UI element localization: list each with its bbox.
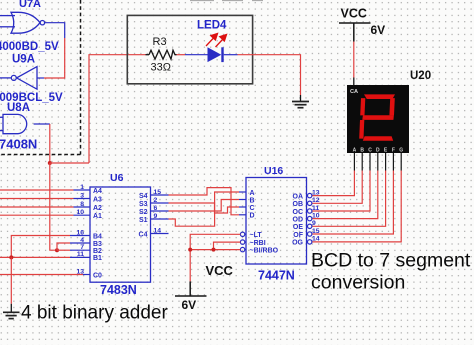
wire to B3 pin [57, 243, 70, 250]
LED LED4 [208, 47, 224, 62]
svg-text:conversion: conversion [311, 272, 405, 294]
svg-text:9: 9 [312, 220, 316, 227]
screen-edge artifact top [190, 0, 263, 1]
svg-text:B: B [360, 148, 364, 154]
svg-text:C: C [250, 205, 255, 212]
svg-text:A4: A4 [93, 188, 102, 195]
segment g (middle) [362, 115, 394, 120]
wire input B1 [0, 256, 70, 258]
svg-text:S4: S4 [139, 193, 148, 200]
svg-text:B3: B3 [93, 241, 102, 248]
segment d (bottom) [363, 136, 393, 141]
IC U6 7483N body [90, 187, 151, 282]
svg-text:OB: OB [293, 201, 304, 208]
wire input A4 [0, 189, 74, 191]
U6 left pin names [93, 188, 102, 279]
U16 input bubbles LT RBI BI [240, 232, 246, 252]
svg-text:U6: U6 [110, 172, 124, 184]
svg-text:U7A: U7A [19, 0, 41, 10]
svg-text:7447N: 7447N [258, 269, 295, 283]
svg-text:~LT: ~LT [250, 232, 263, 239]
svg-text:OF: OF [293, 232, 303, 239]
seven segment display U20 [347, 85, 409, 153]
svg-text:BCD to 7 segment: BCD to 7 segment [311, 250, 471, 272]
svg-text:C: C [368, 148, 372, 154]
segment e (lower-left) [359, 120, 364, 139]
svg-text:D: D [250, 213, 255, 220]
resistor R3 [146, 50, 177, 59]
gate U7A (NOR) [0, 12, 45, 33]
svg-text:OD: OD [293, 216, 304, 223]
svg-text:OE: OE [293, 224, 303, 231]
wire S1 to A [169, 192, 240, 226]
wires display to U16 outputs [312, 171, 401, 242]
wire junction to ground [10, 257, 12, 303]
svg-text:U9A: U9A [12, 54, 35, 66]
U16 output bubbles [307, 193, 312, 244]
U6 left pin numbers [76, 184, 84, 275]
svg-text:A: A [250, 190, 255, 197]
svg-text:A: A [353, 148, 357, 154]
wire S4 to D [169, 188, 240, 215]
svg-text:10: 10 [312, 212, 320, 219]
svg-text:U8A: U8A [7, 102, 30, 114]
node junction VCC-1 [188, 248, 192, 252]
svg-text:D: D [376, 148, 380, 154]
VCC symbol (top) [339, 23, 371, 42]
wire to B2 pin [57, 249, 70, 251]
svg-text:15: 15 [312, 228, 320, 235]
node junction at 57,250 [55, 248, 59, 252]
svg-text:G: G [399, 148, 403, 154]
wire input B4 [11, 236, 70, 258]
display pin letters A-G [353, 148, 404, 154]
svg-text:A1: A1 [93, 213, 102, 220]
wire input A2 [0, 206, 74, 208]
svg-text:LED4: LED4 [197, 20, 227, 32]
svg-text:U20: U20 [410, 70, 431, 82]
svg-text:12: 12 [312, 197, 320, 204]
IC U16 7447N body [246, 178, 307, 265]
wire up to R3 [89, 55, 146, 163]
wires U6 sums to U16 inputs (weave) [169, 188, 240, 227]
wire input C0 [0, 274, 83, 276]
wire VCC to display CA pin [353, 42, 355, 78]
wire R3 to LED [177, 54, 186, 56]
U16 right pin numbers [312, 189, 320, 242]
wire LED to ground [224, 54, 238, 56]
U6 right pin numbers [154, 189, 162, 235]
svg-text:14: 14 [312, 236, 320, 243]
wire U8A out down to node [49, 124, 51, 163]
svg-text:13: 13 [312, 189, 320, 196]
svg-text:7483N: 7483N [100, 283, 137, 297]
svg-text:B: B [250, 197, 255, 204]
svg-text:4000BD_5V: 4000BD_5V [0, 41, 59, 53]
svg-text:6V: 6V [371, 23, 386, 37]
svg-text:A3: A3 [93, 196, 102, 203]
U6 right pin stubs [151, 195, 169, 234]
enclosure box for R3 and LED4 [127, 15, 252, 83]
svg-text:B4: B4 [93, 233, 102, 240]
node junction at 50,163 [48, 161, 52, 165]
svg-text:C0: C0 [93, 272, 102, 279]
VCC symbol (bottom, rotated) [189, 281, 191, 296]
svg-text:U16: U16 [264, 165, 283, 177]
svg-text:11: 11 [312, 205, 319, 212]
svg-text:B1: B1 [93, 255, 102, 262]
svg-text:OC: OC [293, 209, 304, 216]
svg-text:F: F [392, 148, 395, 154]
svg-text:7408N: 7408N [0, 137, 37, 152]
node junction B1 [9, 255, 13, 259]
svg-text:VCC: VCC [341, 7, 367, 21]
svg-text:4 bit binary adder: 4 bit binary adder [21, 303, 168, 324]
wire node right to LED branch [50, 162, 89, 164]
segment a (top) [364, 94, 395, 99]
U16 left pin names [250, 190, 279, 255]
LED4 emission arrows [206, 34, 227, 48]
svg-text:33Ω: 33Ω [151, 62, 171, 74]
VCC net to U16 control pins [190, 234, 240, 281]
wire S3 to C [169, 203, 240, 213]
wire input A1 [0, 214, 74, 216]
dashed selection boundary [0, 0, 81, 155]
svg-text:R3: R3 [153, 36, 167, 48]
svg-text:OG: OG [292, 240, 303, 247]
svg-text:6V: 6V [182, 298, 197, 312]
segment f (upper-left) [360, 98, 365, 115]
svg-text:C4: C4 [139, 231, 148, 238]
svg-text:CA: CA [350, 89, 358, 95]
wire input A3 [0, 198, 74, 200]
wire U7A out to U9A in [38, 23, 65, 78]
U6 left pin stubs [70, 190, 90, 275]
U16 right pin names [292, 193, 304, 246]
wire node down to B pins [50, 163, 57, 250]
U16 left pin stubs A-D [239, 192, 246, 215]
svg-text:~BI/RBO: ~BI/RBO [250, 247, 279, 254]
svg-text:B2: B2 [93, 248, 102, 255]
segment b (upper-right) [389, 98, 394, 115]
wire S2 to B [169, 200, 240, 212]
svg-text:~RBI: ~RBI [250, 240, 266, 247]
display pins (black stubs) [354, 153, 401, 171]
svg-text:A2: A2 [93, 205, 102, 212]
gate U8A (AND) [0, 114, 50, 133]
svg-text:OA: OA [293, 193, 304, 200]
node junction VCC-2 [212, 248, 216, 252]
gate U9A (inverter, facing left) [0, 67, 37, 90]
svg-text:S2: S2 [139, 209, 148, 216]
ground (adder branch) [3, 312, 20, 318]
svg-text:S1: S1 [139, 217, 148, 224]
svg-text:VCC: VCC [206, 263, 234, 278]
U6 right pin names [139, 193, 148, 239]
svg-text:S3: S3 [139, 201, 148, 208]
ground (LED branch) [292, 102, 309, 108]
